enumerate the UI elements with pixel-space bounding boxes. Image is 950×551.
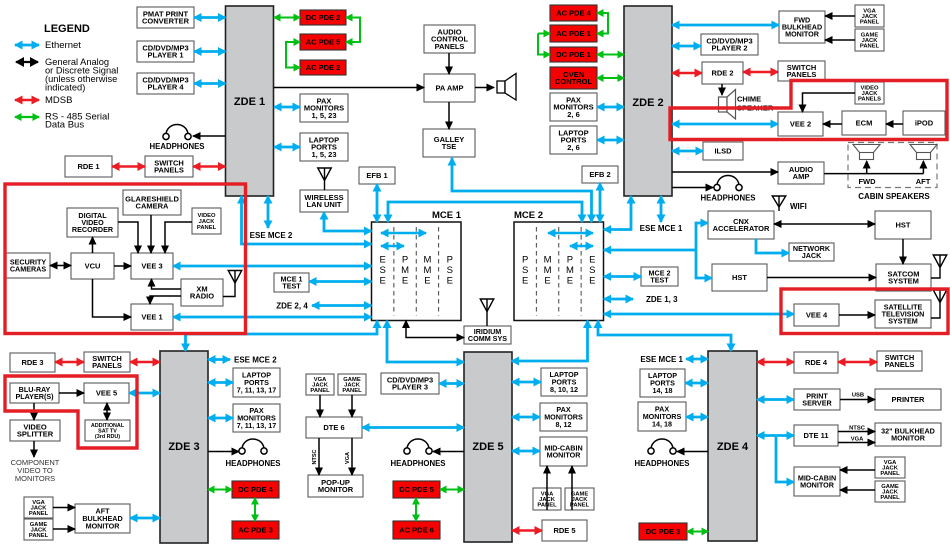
wire MCE2-ZDE4 [598, 321, 731, 352]
wire DTE6-POPUP vga [351, 438, 353, 475]
svg-text:HEADPHONES: HEADPHONES [390, 459, 445, 468]
wire ZDE2-AUDIOAMP [672, 171, 778, 173]
unit MCE 1 [372, 222, 462, 321]
wire ZDE2-VEE2 [672, 123, 778, 126]
svg-text:M: M [566, 265, 574, 276]
svg-text:E: E [567, 276, 573, 287]
wire ZDE2-RDE2 [672, 72, 702, 74]
antenna wifi [772, 196, 786, 211]
box VGA JACK PANEL zde4 [875, 457, 905, 478]
antenna satcom [931, 255, 947, 278]
wire ZDE2-ILSD [672, 150, 703, 153]
wire ZDE1-DCPDE2 [274, 17, 300, 19]
svg-text:MONITOR: MONITOR [86, 521, 121, 530]
svg-text:RDE 2: RDE 2 [711, 69, 733, 78]
box VGA JACK PANEL zde5 [533, 488, 561, 510]
svg-text:ZDE 1, 3: ZDE 1, 3 [646, 295, 678, 304]
svg-text:PANEL: PANEL [197, 225, 217, 231]
svg-text:JACK: JACK [802, 251, 822, 260]
svg-text:14, 18: 14, 18 [653, 386, 673, 395]
svg-text:PLAYER 2: PLAYER 2 [712, 44, 748, 53]
svg-text:Data Bus: Data Bus [45, 120, 84, 131]
svg-text:E: E [589, 276, 595, 287]
svg-text:MONITOR: MONITOR [547, 450, 582, 459]
icon headphones ZDE2 [714, 176, 742, 191]
wire SP3-ZDE3 [130, 361, 160, 363]
box VEE 4 [794, 304, 839, 326]
box SWITCH PANELS 2 [778, 61, 825, 81]
box HST left [712, 264, 767, 291]
svg-text:PANEL: PANEL [880, 471, 900, 477]
box POP-UP MONITOR [308, 475, 363, 497]
svg-text:1, 5, 23: 1, 5, 23 [311, 111, 336, 120]
svg-text:SPLITTER: SPLITTER [17, 430, 54, 439]
wire DTE11-32BHM vga [838, 442, 875, 444]
cabin speaker AFT icon [910, 145, 937, 160]
wire RDE2-CHIME [721, 84, 723, 95]
box AC PDE 2 [300, 60, 346, 75]
icon chime speaker [719, 90, 736, 120]
svg-text:PANEL: PANEL [29, 533, 49, 539]
box VIDEO JACK PANELS [855, 82, 884, 104]
antenna iridium [480, 299, 494, 326]
box LAPTOP PORTS 8,10,12 [541, 368, 587, 396]
legend ethernet arrow [15, 44, 39, 47]
wire CNX-HST [774, 223, 875, 225]
wire GAMEJP5-MIDCAB [571, 466, 573, 510]
svg-text:PLAYER 1: PLAYER 1 [148, 51, 184, 60]
box CD/DVD/MP3 PLAYER 4 [137, 73, 194, 94]
box SWITCH PANELS 3 [84, 352, 130, 372]
box ILSD [703, 142, 743, 160]
box LAPTOP PORTS 2,6 [550, 126, 597, 154]
wire OVEN-ZDE2 [597, 77, 624, 79]
wire GLARE-VEE3 [150, 215, 152, 253]
wire MCE1-IRIDIUM [406, 321, 464, 338]
box AUDIO AMP [778, 162, 824, 184]
box DTE 11 [794, 425, 838, 446]
wire ZDE3-DCPDE4 [208, 489, 232, 491]
svg-text:ESE MCE 1: ESE MCE 1 [640, 224, 683, 233]
box HST top [875, 211, 931, 239]
svg-text:RDE 3: RDE 3 [21, 358, 43, 367]
wire MCE1-ZDE3 [186, 321, 378, 352]
box CD/DVD/MP3 PLAYER 3 [381, 373, 439, 394]
wire HSTleft-SATCOM [767, 277, 876, 279]
wire PAXMON2-ZDE2 [597, 106, 624, 109]
icon headphones ZDE1 [163, 125, 191, 140]
svg-text:USB: USB [852, 393, 864, 399]
wire PAAMP-speaker [475, 87, 494, 89]
svg-text:DC PDE 1: DC PDE 1 [556, 50, 591, 59]
svg-text:E: E [380, 276, 386, 287]
wire RDE3-SP3 [55, 361, 84, 363]
wire MCE1-MCE2 link [388, 202, 582, 222]
wire RDE2-SP2 [743, 71, 778, 73]
box VEE 2 [778, 112, 823, 136]
wire DCPDE2-ACPDE5 hook [346, 18, 360, 43]
svg-text:2, 6: 2, 6 [567, 110, 580, 119]
icon headphones ZDE4 [648, 439, 676, 454]
svg-text:ESE MCE 2: ESE MCE 2 [250, 231, 293, 240]
svg-text:NTSC: NTSC [312, 449, 318, 464]
svg-text:ZDE 2, 4: ZDE 2, 4 [276, 302, 308, 311]
svg-text:AMP: AMP [793, 172, 810, 181]
wire MCE2 ZDE1,3 stub [604, 298, 633, 301]
svg-text:(3rd RDU): (3rd RDU) [95, 434, 120, 440]
wire VEE1-MCE1 [173, 316, 372, 319]
box ADDITIONAL SAT TV [85, 420, 130, 441]
svg-text:VGA: VGA [851, 437, 864, 443]
unit ZDE 3 [160, 351, 208, 543]
wire MCE1-ZDE5 [387, 321, 464, 363]
svg-text:CABIN SPEAKERS: CABIN SPEAKERS [858, 192, 930, 201]
svg-text:S: S [447, 265, 453, 276]
wire AUDIOAMP-speakers [824, 173, 923, 175]
svg-text:ZDE 1: ZDE 1 [234, 96, 265, 108]
box NETWORK JACK [789, 243, 834, 261]
box SATELLITE TELEVISION SYSTEM [875, 300, 931, 328]
svg-text:RDE 5: RDE 5 [553, 526, 575, 535]
box AC PDE 6 [393, 521, 440, 539]
unit ZDE 2 [624, 6, 672, 196]
box VEE 1 [131, 304, 173, 330]
svg-text:PANEL: PANEL [570, 503, 590, 509]
wire DTE6-ZDE5 [362, 426, 464, 429]
svg-text:VEE 5: VEE 5 [96, 389, 117, 398]
wire ZDE1-headphones [193, 135, 226, 137]
box SATCOM SYSTEM [876, 264, 931, 291]
wire ZDE1-LAPTOP1 [274, 146, 300, 149]
wire DCPDE4-ACPDE3 [254, 498, 256, 521]
box DC PDE 5 [393, 481, 440, 498]
icon headphones ZDE3 [239, 439, 267, 454]
svg-text:PANEL: PANEL [310, 388, 330, 394]
box GAME JACK PANEL aft [24, 519, 53, 540]
wire CNXHST branch [696, 250, 712, 278]
box RDE 2 [702, 62, 743, 84]
svg-text:MONITOR: MONITOR [891, 434, 926, 443]
wire VGAJP5-MIDCAB [546, 466, 548, 510]
svg-text:MONITOR: MONITOR [800, 480, 835, 489]
wire WLAN-MCE1 [324, 212, 372, 231]
svg-text:ILSD: ILSD [714, 147, 732, 156]
wire MCE1TEST-MCE1 [309, 280, 372, 283]
svg-text:ESE MCE 1: ESE MCE 1 [640, 355, 683, 364]
wire ZDE1 ESE MCE2 stub [267, 196, 270, 228]
wire ZDE4-DTE11 [757, 434, 794, 437]
svg-text:ZDE 2: ZDE 2 [632, 97, 663, 109]
wire MCE1 ZDE2,4 stub [312, 304, 372, 307]
box VGA JACK PANEL dte6 [306, 374, 334, 395]
box MID-CABIN MONITOR zde5 [540, 437, 587, 466]
box PAX MONITORS 14,18 [638, 402, 686, 431]
svg-text:MCE 2: MCE 2 [514, 210, 543, 221]
wire LAPTOP14-ZDE4 [685, 382, 708, 385]
wire ZDE3-headphones [208, 451, 239, 453]
svg-text:7, 11, 13, 17: 7, 11, 13, 17 [237, 385, 277, 394]
box VGA JACK PANEL top [855, 5, 884, 27]
box AC PDE 1 [550, 25, 597, 42]
red outline VEE2 group [670, 81, 947, 140]
antenna sat tv [931, 290, 947, 318]
svg-text:TEST: TEST [282, 282, 301, 291]
svg-text:ZDE 5: ZDE 5 [472, 441, 503, 453]
svg-text:DTE 6: DTE 6 [323, 423, 344, 432]
unit ZDE 4 [708, 351, 757, 541]
svg-text:PANEL: PANEL [860, 20, 880, 26]
red outline VEE4 group [781, 289, 948, 334]
wire MCE2-VEE4 [604, 313, 794, 316]
wire ZDE2-FWDBHM [672, 24, 779, 27]
wire VCU-VEE3 [114, 265, 131, 267]
red outline video group [5, 184, 246, 334]
svg-text:MDSB: MDSB [45, 95, 72, 106]
unit MCE 2 [514, 222, 604, 321]
box MCE 2 TEST [641, 267, 678, 286]
svg-text:PANELS: PANELS [435, 42, 465, 51]
svg-text:AC PDE 6: AC PDE 6 [399, 526, 434, 535]
wire ECM-VEE2 [823, 123, 842, 125]
wire EFB2-MCE2 [599, 183, 602, 222]
svg-text:CHIME: CHIME [737, 95, 761, 104]
wire EFB1-MCE1 [376, 184, 379, 222]
wire VJPS-VEE2 [803, 93, 856, 112]
svg-text:S: S [380, 265, 386, 276]
box GLARESHIELD CAMERA [123, 190, 181, 215]
box VGA JACK PANEL aft [24, 497, 53, 518]
box PAX MONITORS 1,5,23 [300, 94, 348, 122]
box CNX ACCELERATOR [708, 211, 774, 239]
wire DCPDE5-ACPDE6 [415, 498, 417, 521]
box RDE 3 [10, 353, 55, 372]
wire ZDE5-MIDCAB [512, 450, 540, 453]
wire PMAT-ZDE1 [194, 16, 226, 19]
wire DTE11-32BHM ntsc [838, 431, 875, 433]
svg-text:MONITORS: MONITORS [15, 474, 55, 483]
box PRINTER [875, 389, 941, 410]
wire ZDE2-headphones [672, 187, 713, 189]
svg-text:AC PDE 2: AC PDE 2 [306, 63, 341, 72]
svg-text:ECM: ECM [856, 119, 873, 128]
unit ZDE 1 [226, 6, 274, 196]
box DIGITAL VIDEO RECORDER [67, 208, 118, 237]
legend mdsb arrow [15, 99, 39, 101]
svg-text:E: E [544, 276, 550, 287]
svg-text:PANEL: PANEL [880, 495, 900, 501]
svg-text:AC PDE 1: AC PDE 1 [556, 29, 591, 38]
wire VGAJP6-DTE6 [319, 395, 321, 417]
svg-text:DC PDE 3: DC PDE 3 [646, 527, 681, 536]
wire VIDSPLIT-COMPONENT [33, 441, 35, 457]
wire VEE3-MCE1 [173, 265, 372, 268]
svg-text:PANEL: PANEL [860, 44, 880, 50]
wire VGAJP4-MIDCAB4 [840, 469, 875, 471]
wire IPOD-ECM [886, 123, 903, 125]
wire DTE6-POPUP ntsc [318, 438, 320, 475]
box FWD BULKHEAD MONITOR [779, 11, 825, 43]
svg-text:AC PDE 5: AC PDE 5 [306, 38, 341, 47]
box CD/DVD/MP3 PLAYER 1 [137, 41, 194, 62]
svg-text:1, 5, 23: 1, 5, 23 [311, 150, 336, 159]
cabin speaker FWD icon [853, 145, 880, 160]
box CD/DVD/MP3 PLAYER 2 [701, 34, 758, 55]
svg-text:EFB 1: EFB 1 [366, 171, 387, 180]
svg-text:PANEL: PANEL [342, 388, 362, 394]
box PAX MONITORS 8,12 [540, 403, 587, 431]
svg-text:2, 6: 2, 6 [567, 143, 580, 152]
wire ZDE3 ESE stub [208, 358, 230, 361]
box GAME JACK PANEL top [855, 29, 884, 51]
red outline blu-ray group [5, 376, 137, 448]
svg-text:RADIO: RADIO [190, 292, 214, 301]
box BLU-RAY PLAYERS [10, 383, 59, 403]
svg-text:Ethernet: Ethernet [45, 40, 81, 51]
wire ZDE5-RDE5 [512, 529, 542, 531]
svg-text:MCE 1: MCE 1 [432, 210, 462, 221]
box OVEN CONTROL [550, 67, 597, 89]
antenna wireless lan [318, 168, 332, 190]
svg-text:RDE 4: RDE 4 [805, 358, 828, 367]
wire VJPleft-VEE3 [165, 222, 192, 253]
svg-text:8, 10, 12: 8, 10, 12 [550, 385, 578, 394]
svg-text:VCU: VCU [85, 262, 101, 271]
box GALLEY TSE [423, 129, 475, 157]
svg-text:LEGEND: LEGEND [44, 23, 90, 35]
box EFB 2 [582, 166, 618, 183]
wire AFTBHM-ZDE3 [130, 517, 160, 520]
svg-text:DC PDE 4: DC PDE 4 [238, 485, 273, 494]
box RDE 1 [65, 156, 112, 177]
svg-text:iPOD: iPOD [915, 119, 934, 128]
wire ZDE1-MCE1 ese [242, 196, 372, 244]
svg-text:AFT: AFT [916, 177, 931, 186]
svg-text:M: M [544, 255, 552, 266]
wire DCPDE5-ZDE5 [440, 489, 464, 491]
MCE 2 internal arrow b [570, 245, 593, 248]
svg-text:ACCELERATOR: ACCELERATOR [713, 224, 770, 233]
icon headphones ZDE5 [404, 439, 432, 454]
box VIDEO JACK PANEL left [192, 208, 221, 234]
wire ZDE4-RDE4 [757, 361, 794, 363]
wire RDE1-SP1 [112, 165, 145, 167]
wire GAMEJP4-MIDCAB4 [840, 489, 875, 491]
box PAX MONITORS 7,11,13,17 [233, 404, 280, 432]
MCE 1 internal arrow b [381, 245, 404, 248]
box VEE 3 [131, 253, 173, 279]
svg-text:CAMERA: CAMERA [136, 202, 169, 211]
svg-text:COMM SYS: COMM SYS [468, 334, 507, 343]
box XM RADIO [181, 279, 223, 306]
svg-text:PANELS: PANELS [858, 97, 881, 103]
svg-text:8, 12: 8, 12 [556, 420, 572, 429]
wire GAMEJPtop-FWDBHM [825, 39, 855, 41]
wire PRINTSERVER-PRINTER [840, 399, 875, 401]
wire RDE4-SP4 [838, 361, 877, 363]
box PMAT PRINT CONVERTER [137, 7, 194, 28]
wire ACPDE4-ACPDE1 hook [597, 13, 608, 34]
wire SP1-ZDE1 [193, 165, 226, 167]
box DC PDE 1 [550, 47, 597, 62]
wire VEE5-ADDSAT [106, 403, 108, 420]
box GAME JACK PANEL dte6 [338, 374, 366, 395]
wire ZDE2-MCE2 ese [604, 196, 631, 230]
svg-text:P: P [402, 255, 408, 266]
svg-text:E: E [424, 276, 430, 287]
wire ZDE4-MIDCAB branch [776, 436, 794, 483]
svg-text:TSE: TSE [442, 142, 457, 151]
wire ZDE2 ESE MCE1 stub [660, 196, 663, 222]
wire speaker AFT drop [922, 161, 924, 174]
box AC PDE 5 [300, 34, 346, 50]
box AUDIO CONTROL PANELS [424, 25, 475, 53]
wire XM-VEE1 [150, 296, 181, 304]
wire ACPDE5-ACPDE2 hook [286, 42, 300, 68]
wire DCPDE3-ZDE4 [687, 531, 708, 533]
cabin speakers dashed box [848, 143, 937, 188]
svg-text:EFB 2: EFB 2 [589, 170, 610, 179]
wire ACPDE1-DCPDE1 hook b [538, 34, 550, 55]
box PA AMP [424, 74, 475, 102]
svg-text:PANELS: PANELS [787, 70, 817, 79]
svg-text:PLAYER(S): PLAYER(S) [15, 392, 54, 401]
svg-text:ZDE 3: ZDE 3 [168, 441, 199, 453]
svg-text:M: M [544, 265, 552, 276]
svg-text:RDE 1: RDE 1 [77, 162, 99, 171]
svg-text:PA AMP: PA AMP [435, 84, 463, 93]
MCE 2 internal arrow a [548, 232, 593, 235]
svg-text:VEE 3: VEE 3 [141, 262, 162, 271]
svg-text:CAMERAS: CAMERAS [10, 264, 47, 273]
wire VEE4-SATTV [839, 314, 875, 316]
wire CD4-ZDE1 [194, 82, 226, 85]
svg-text:PLAYER 4: PLAYER 4 [148, 83, 185, 92]
wire VGAJPaft-AFTBHM [53, 507, 75, 509]
svg-text:RECORDER: RECORDER [72, 225, 114, 234]
wire SECCAM-VCU [50, 265, 71, 267]
wire ZDE1-PAXMON1 [274, 106, 300, 109]
box DC PDE 3 [639, 523, 687, 540]
wire ZDE5-PAXMON8 [512, 416, 540, 419]
wire VGAJPtop-FWDBHM [825, 15, 855, 17]
svg-text:VEE 2: VEE 2 [790, 120, 811, 129]
wire BLURAY-VEE5 [59, 392, 84, 394]
svg-text:MONITOR: MONITOR [785, 29, 820, 38]
svg-text:PANELS: PANELS [154, 166, 184, 175]
wire MCE2TEST-MCE2 [604, 275, 641, 278]
wire ZDE4-headphones [677, 451, 708, 453]
wire CD1-ZDE1 [194, 50, 226, 53]
box VCU [71, 253, 114, 279]
svg-text:M: M [401, 265, 409, 276]
svg-text:LAN UNIT: LAN UNIT [307, 200, 342, 209]
svg-text:E: E [402, 276, 408, 287]
svg-text:HEADPHONES: HEADPHONES [149, 142, 204, 151]
MCE 1 internal arrow a [381, 232, 426, 235]
svg-text:SERVER: SERVER [802, 399, 832, 408]
svg-text:FWD: FWD [858, 177, 876, 186]
box AFT BULKHEAD MONITOR [75, 504, 130, 533]
svg-text:CONTROL: CONTROL [555, 77, 592, 86]
wire ACP-PAAMP [448, 53, 450, 74]
svg-text:HEADPHONES: HEADPHONES [225, 459, 280, 468]
wire ZDE1-PAAMP [274, 87, 424, 89]
svg-text:MONITOR: MONITOR [318, 485, 354, 494]
wire CNX-NETWORKJACK [756, 239, 789, 253]
wire GAMEJPaft-AFTBHM [53, 528, 75, 530]
wire VEE5-ZDE3 [129, 392, 160, 395]
wire VCU-DVR [92, 237, 94, 253]
